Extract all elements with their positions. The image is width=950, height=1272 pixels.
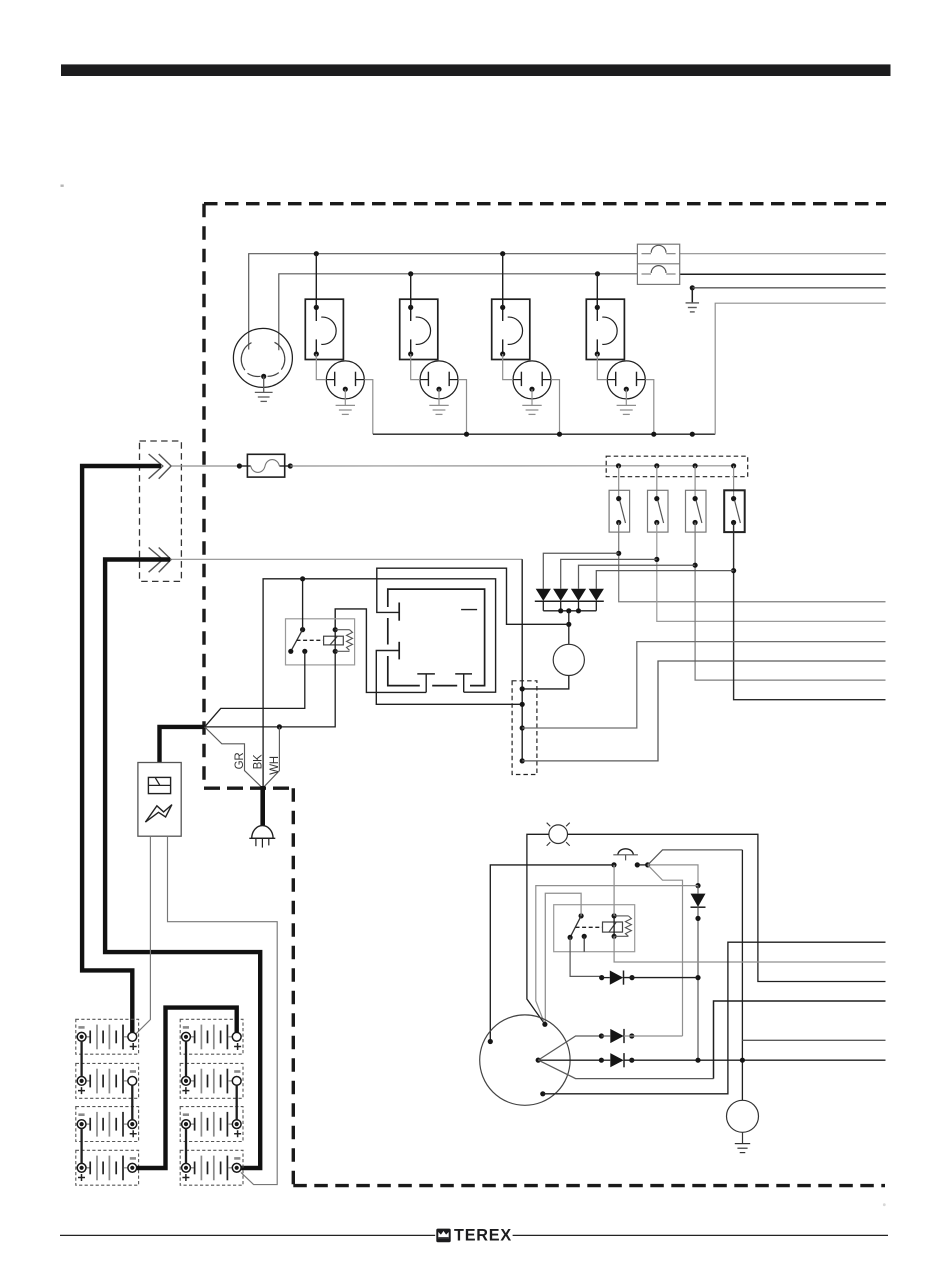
ground symbol G1 — [691, 288, 693, 303]
wire L2 dark continuation to edge — [680, 273, 886, 275]
wire: RC1 to neutral bus — [364, 380, 373, 435]
wire: K2 NO to diode D1 — [570, 937, 602, 976]
wire: D7 node to motor top — [536, 886, 698, 1025]
wire: CB4 to RC4 — [597, 354, 607, 380]
wire: B2 upper branch to gauge drop — [648, 850, 743, 865]
T1 interior mark — [461, 609, 477, 611]
diode D7 — [691, 894, 706, 907]
node: breaker CB3 tap on L1 — [500, 251, 505, 256]
T1 bottom tap T1c — [417, 673, 435, 675]
thick wire: bundle to charger CB1 — [160, 727, 205, 763]
TS1 terminal node x=695.1 — [693, 463, 698, 468]
T1 bottom tap T1d — [455, 673, 472, 675]
wire A: S1 node to diode D2 — [543, 553, 618, 589]
CB1 sense wire to BT8 — [168, 836, 278, 1184]
wire: RC3 to neutral bus — [551, 380, 560, 435]
wire W1: transformer tap T1a wrap to rectifier node — [377, 568, 569, 624]
duplex receptacle RC3 — [513, 361, 551, 399]
wire: M1 to TS2 terminal 1 — [522, 676, 569, 689]
wire: K2 common to motor top — [545, 893, 581, 1024]
chassis ground node G1 — [690, 285, 695, 290]
circuit breaker CB1 — [305, 299, 343, 359]
wire: S3 to right edge — [695, 523, 885, 681]
wire: TS2-4 to right edge — [522, 661, 885, 761]
TS1 terminal node x=656.8 — [654, 463, 659, 468]
K1 NO contact — [302, 649, 307, 654]
node bus/RC4 — [651, 432, 656, 437]
wire: M2 center to row A diode D6 — [538, 1036, 601, 1060]
svg-text:TEREX: TEREX — [454, 1227, 512, 1245]
wire: L1 to CB1 — [315, 254, 317, 308]
wire: chevron2 line to TS2 bus — [172, 558, 523, 560]
PB1 contacts — [611, 862, 616, 867]
wire: TS1 to switch S4 — [733, 466, 735, 499]
D2-D5 cathode bar — [535, 600, 604, 602]
battery BT7 — [180, 1107, 243, 1142]
toggle switch S4 — [724, 490, 745, 532]
K1 actuator dashed link — [297, 639, 324, 641]
motor M2 — [480, 1015, 570, 1105]
node D7/D1 line — [695, 916, 700, 921]
K1 NC contact — [288, 649, 293, 654]
wire: B2 middle branch to diode D7 — [648, 865, 698, 886]
thick wire: chevron2 to battery BT8 - — [105, 560, 260, 1169]
wire: D6 to B2 lower branch — [624, 1035, 683, 1037]
diode D6 — [610, 1029, 623, 1043]
K2 actuator dashed link — [576, 926, 603, 928]
TS1 internal bus — [619, 465, 734, 467]
wire L1 continuation right of breaker — [680, 253, 886, 255]
wire: RC4 to neutral bus — [645, 380, 654, 435]
TS2 bus wire — [521, 559, 523, 761]
faint mark bottom-right — [883, 1203, 886, 1206]
wire: rectifier bus to ammeter M1 — [568, 611, 570, 645]
wire: S2 to right edge — [657, 523, 886, 622]
T1 winding tap T1a — [398, 603, 400, 621]
M2 terminal top — [542, 1022, 547, 1027]
R0 ground pin node — [261, 374, 266, 379]
K2 coil — [603, 922, 623, 932]
wire: PB1 to bundle B2 — [637, 864, 647, 866]
wire: CB2 to RC2 — [411, 354, 420, 380]
TS2 terminal 4 — [520, 758, 525, 763]
CB1 sense wire to BT1 — [136, 836, 151, 1034]
K2 NC stub contact — [582, 934, 587, 939]
wire L1 (top hot bus) — [249, 254, 638, 350]
wire: M2 center lower diag — [538, 1060, 713, 1079]
T1 winding tap T1b — [398, 642, 400, 660]
wire: PB1/K2-coil junction — [613, 865, 615, 916]
node K1-common/W3/BK — [300, 576, 305, 581]
wire WH: tap to plug junction — [263, 727, 280, 788]
node rectifier/transformer top wrap — [566, 622, 571, 627]
wire through K2 coil — [613, 916, 615, 936]
battery link BT1-BT2 — [80, 1041, 82, 1076]
K1 coil — [324, 636, 344, 645]
wire C: S3 node to diode D4 — [579, 565, 696, 589]
wire GR: bundle to plug junction — [205, 727, 263, 788]
node S4/line D — [731, 568, 736, 573]
K2 blade — [571, 916, 582, 937]
wire: M2 bottom to right edge via x=728 — [543, 942, 886, 1094]
toggle switch S1 — [609, 490, 630, 532]
circuit breaker CB4 — [586, 299, 624, 359]
CB1 meter icon — [148, 777, 170, 793]
toggle switch S2 — [648, 490, 669, 532]
wire: B2 lower branch — [648, 865, 683, 1036]
circuit breaker CB3 — [492, 299, 530, 359]
battery link BT3-BT4 — [80, 1129, 82, 1164]
wire: L2 to CB4 — [596, 274, 598, 308]
charger transformer T1 core box — [388, 589, 485, 686]
wire: K2 coil to right edge — [614, 936, 885, 962]
battery link BT5-BT6 — [185, 1041, 187, 1076]
enclosure dashed border — [204, 204, 886, 1186]
battery BT8 — [180, 1150, 243, 1185]
duplex receptacle RC1 — [326, 361, 364, 399]
wire W3: relay K1 common node to tap T1d — [303, 579, 496, 692]
node: breaker CB4 tap on L2 — [595, 271, 600, 276]
wire row B: M2 center to right edge — [538, 1059, 601, 1061]
wire W2: tap T1b wrap to TS2 terminal 2 — [376, 651, 522, 705]
wire D: S4 node to diode D5 — [596, 571, 733, 589]
wire: CB1 to RC1 — [316, 354, 326, 380]
node: breaker CB2 tap on L2 — [408, 271, 413, 276]
wire: D1 to D7 node — [624, 977, 699, 979]
wire B: diode D3 to S2 node — [561, 559, 657, 588]
M2 terminal left — [488, 1039, 493, 1044]
K2 common contact — [579, 913, 584, 918]
node D7 anode — [695, 883, 700, 888]
circuit breaker CB2 — [400, 299, 438, 359]
diode D8 — [610, 1053, 623, 1067]
TS1 terminal node x=733.6 — [731, 463, 736, 468]
node bus/RC3 — [557, 432, 562, 437]
battery BT2 — [76, 1063, 139, 1098]
thick wire: chevron1 to battery BT1 + — [82, 466, 161, 1033]
relay K2 box — [554, 905, 635, 952]
wire: L1 to CB3 — [502, 254, 504, 308]
wire through K1 coil — [334, 630, 336, 652]
Terex logo mark — [436, 1229, 450, 1243]
wire: D7 cathode down — [697, 886, 699, 894]
wire: x=713.5 riser to right edge — [714, 1001, 886, 1079]
battery link BT2-BT3 — [131, 1085, 133, 1120]
connector chevron contact 1 — [149, 454, 163, 479]
battery BT4 — [76, 1150, 139, 1185]
indicator lamp L2 — [549, 825, 568, 844]
node rowB/D7 — [695, 1058, 700, 1063]
duplex receptacle RC4 — [607, 361, 645, 399]
charger rectifier diodes D2-D5 — [536, 589, 551, 601]
node rowB/gauge — [740, 1058, 745, 1063]
M2 terminal bottom — [540, 1091, 545, 1096]
battery BT5 — [180, 1019, 243, 1054]
rectifier output bus — [542, 601, 544, 611]
wire: lamp to right edge (via x=758) — [568, 834, 886, 981]
wire: K1 NO to bundle — [205, 651, 305, 727]
wire: S1 to lamp line (right edge) — [619, 523, 886, 602]
node bus/RC2 — [464, 432, 469, 437]
wire: gauge T to right edge — [742, 1039, 885, 1041]
terminal strip TS1 (dashed) — [606, 456, 748, 477]
node bus junction — [690, 432, 695, 437]
wire L2 (second hot bus) — [279, 274, 638, 350]
battery BT1 — [76, 1019, 139, 1054]
ammeter M1 — [553, 644, 584, 675]
TS2 terminal 3 — [520, 725, 525, 730]
wire: chevron1 to fuse F1 — [172, 465, 240, 467]
wire: motor left to PB1 — [490, 865, 614, 1042]
K1 coil resistor zigzag — [347, 630, 353, 651]
battery link BT6-BT7 — [236, 1085, 238, 1120]
ground of R0 — [263, 376, 265, 392]
duplex receptacle RC2 — [420, 361, 458, 399]
title bar — [61, 64, 891, 76]
K2 NO contact — [568, 935, 573, 940]
diode D1 — [599, 975, 604, 980]
TS2 terminal 2 — [520, 702, 525, 707]
wire: G1 to right edge — [692, 287, 885, 289]
thick wire: junction to plug — [260, 786, 265, 826]
wire: gauge drop vertical — [741, 850, 743, 1101]
fuse F1 — [237, 463, 242, 468]
K1 common contact — [300, 627, 305, 632]
wire: CB3 to RC3 — [503, 354, 513, 380]
node WH tap — [277, 724, 282, 729]
dual circuit breaker CB5 — [637, 244, 679, 284]
terminal strip TS2 (dashed) — [512, 681, 537, 775]
wire: TS2-3 to right edge — [522, 642, 885, 728]
battery BT6 — [180, 1063, 243, 1098]
ground of M3 — [742, 1132, 744, 1143]
wire: L2 to CB2 — [410, 274, 412, 308]
battery charger CB1 — [138, 763, 181, 837]
page tick top-left — [61, 185, 64, 187]
wire: RC2 to neutral bus — [458, 380, 467, 435]
node: breaker CB1 tap on L1 — [314, 251, 319, 256]
svg-text:WH: WH — [269, 756, 281, 775]
AC plug P2 — [252, 826, 273, 839]
M2 terminal center — [536, 1058, 541, 1063]
gauge M3 — [727, 1100, 759, 1132]
wire: TS1 to switch S1 — [618, 466, 620, 499]
wire: lamp to motor top — [527, 834, 549, 1024]
TS2 terminal 1 — [520, 686, 525, 691]
battery link BT7-BT8 — [185, 1129, 187, 1164]
CB1 flash icon — [145, 805, 172, 823]
push button PB1 dome — [618, 849, 633, 855]
node S3/line C — [693, 563, 698, 568]
node bundle B2 — [645, 862, 650, 867]
node S2/line B — [654, 557, 659, 562]
relay K1 box — [286, 619, 355, 665]
wire: fuse F1 to terminal strip TS1 — [290, 465, 618, 467]
wire: TS1 to switch S3 — [694, 466, 696, 499]
TS1 terminal node x=618.5 — [616, 463, 621, 468]
K2 coil resistor zigzag — [625, 916, 631, 936]
node S1/diode line A — [616, 551, 621, 556]
battery BT3 — [76, 1107, 139, 1142]
wire: K1 common up to node — [302, 579, 304, 630]
svg-text:BK: BK — [252, 754, 264, 769]
footer rule — [60, 1234, 435, 1236]
wire: TS1 to switch S2 — [656, 466, 658, 499]
K1 blade — [291, 630, 302, 651]
wire: bus to right edge — [715, 303, 886, 434]
battery connector P1 (dashed) — [140, 441, 182, 581]
thick series link BT4 to BT5 — [137, 1008, 237, 1168]
toggle switch S3 — [686, 490, 707, 532]
wire: K1 coil to bundle — [205, 651, 336, 727]
wire W4: relay K1 coil to tap T1c — [335, 609, 426, 693]
twist-lock receptacle R0 — [233, 328, 292, 387]
wire: S4 to right edge — [734, 523, 886, 700]
neutral bus wire — [373, 433, 715, 435]
connector chevron contact 2 — [149, 548, 163, 573]
wire BK: node to plug junction — [263, 579, 303, 788]
svg-text:GR: GR — [234, 753, 246, 770]
